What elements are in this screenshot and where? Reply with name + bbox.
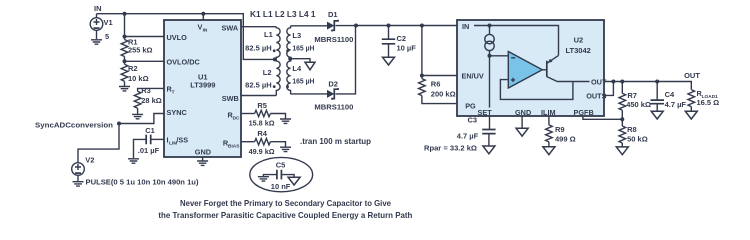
node junction SYNC xyxy=(117,122,121,126)
ground triangle (secondary tap) xyxy=(305,62,315,70)
svg-text:4.7 µF: 4.7 µF xyxy=(665,100,687,109)
node D1/D2 output junction xyxy=(354,24,358,28)
ground (U1 GND) xyxy=(197,161,208,165)
svg-text:ILIM: ILIM xyxy=(541,108,556,117)
node junction OUTS xyxy=(611,80,615,84)
svg-text:OUT: OUT xyxy=(684,71,700,80)
svg-text:L1: L1 xyxy=(264,30,273,39)
wire OVLO pin xyxy=(125,60,165,62)
svg-text:82.5 µH: 82.5 µH xyxy=(245,44,272,53)
op-amp U2 error amplifier xyxy=(508,52,542,89)
svg-text:82.5 µH: 82.5 µH xyxy=(245,81,272,90)
svg-text:C4: C4 xyxy=(665,90,675,99)
node junction OVLO xyxy=(123,59,127,63)
diode D2 xyxy=(314,80,353,112)
wire U2 internal IN rail xyxy=(474,26,559,56)
svg-text:.01 µF: .01 µF xyxy=(138,146,160,155)
node phasing dot L2 xyxy=(273,85,276,88)
svg-text:R6: R6 xyxy=(431,79,441,88)
wire minus input xyxy=(490,55,509,57)
svg-text:MBRS1100: MBRS1100 xyxy=(314,35,353,44)
svg-text:SyncADCconversion: SyncADCconversion xyxy=(35,120,113,129)
svg-text:IN: IN xyxy=(94,4,102,13)
capacitor C4 xyxy=(651,82,687,112)
svg-text:10 kΩ: 10 kΩ xyxy=(128,74,149,83)
svg-text:SWA: SWA xyxy=(222,24,239,33)
node junction R7 top xyxy=(620,80,624,84)
wire OUT from emitter xyxy=(558,81,590,83)
ground triangle (R8) xyxy=(616,147,628,155)
svg-text:R3: R3 xyxy=(141,86,151,95)
wire secondary rail to U2 IN xyxy=(356,25,457,27)
svg-text:499 Ω: 499 Ω xyxy=(555,134,576,143)
wire R1-R2 xyxy=(124,57,126,65)
wire SYNC to V2 xyxy=(78,124,119,163)
text .tran directive xyxy=(300,137,371,146)
wire PGFB pin xyxy=(583,116,622,119)
svg-text:R9: R9 xyxy=(555,125,565,134)
wire SET column xyxy=(489,51,491,108)
wire RDC pin with resistor R5 xyxy=(241,113,255,115)
resistor R5 xyxy=(249,101,286,128)
node junction UVLO xyxy=(123,35,127,39)
resistor R9 xyxy=(546,125,576,144)
ground (R3) xyxy=(132,114,143,118)
wire EN/UV pin xyxy=(422,75,457,77)
capacitor C1 xyxy=(134,126,165,158)
svg-text:.tran 100 m startup: .tran 100 m startup xyxy=(300,137,371,146)
wire SWA to L1 xyxy=(241,26,276,28)
svg-text:EN/UV: EN/UV xyxy=(462,72,484,81)
svg-text:IN: IN xyxy=(462,22,469,31)
inductor L3 xyxy=(287,26,315,59)
capacitor C3 xyxy=(457,115,496,146)
svg-text:R5: R5 xyxy=(257,101,267,110)
svg-text:Never Forget the Primary to Se: Never Forget the Primary to Secondary Ca… xyxy=(180,199,391,208)
wire UVLO pin xyxy=(125,36,165,38)
resistor R7 xyxy=(619,82,651,120)
node secondary center tap xyxy=(288,57,292,61)
svg-text:SWB: SWB xyxy=(222,94,239,103)
svg-text:200 kΩ: 200 kΩ xyxy=(431,90,456,99)
ground triangle (R9) xyxy=(543,147,555,155)
svg-text:4.7 µF: 4.7 µF xyxy=(457,132,479,141)
text caption line1 xyxy=(180,199,391,208)
svg-text:PGFB: PGFB xyxy=(574,108,594,117)
svg-text:R2: R2 xyxy=(128,64,138,73)
node primary center tap xyxy=(273,57,277,61)
capacitor C2 xyxy=(382,26,416,57)
op-amp U2 LT3042 block xyxy=(457,20,607,117)
svg-text:165 µH: 165 µH xyxy=(292,77,314,86)
node junction C2 xyxy=(387,24,391,28)
resistor R2 xyxy=(121,64,148,83)
ground (V2) xyxy=(73,182,84,186)
svg-text:GND: GND xyxy=(515,108,531,117)
svg-text:OUTS: OUTS xyxy=(586,92,606,101)
node junction rail/VIN xyxy=(201,12,205,16)
wire SYNC pin xyxy=(119,114,164,124)
svg-text:50 kΩ: 50 kΩ xyxy=(627,134,648,143)
svg-text:R7: R7 xyxy=(627,91,637,100)
wire U1 GND stub xyxy=(202,157,204,161)
wire L4 to D2 xyxy=(291,93,327,95)
svg-text:PULSE(0 5 1u 10n 10n 490n 1u): PULSE(0 5 1u 10n 10n 490n 1u) xyxy=(86,178,200,187)
svg-text:/SS: /SS xyxy=(176,136,188,145)
svg-text:255 kΩ: 255 kΩ xyxy=(128,46,153,55)
svg-text:the Transformer Parasitic Capa: the Transformer Parasitic Capacitive Cou… xyxy=(158,211,412,220)
node junction R6 xyxy=(420,24,424,28)
svg-text:BIAS: BIAS xyxy=(228,144,240,150)
node phasing dot L3 xyxy=(286,49,289,52)
current source U2 xyxy=(485,26,494,51)
ground (V1) xyxy=(91,40,102,44)
inductor L4 xyxy=(287,59,315,95)
svg-text:IN: IN xyxy=(203,27,208,33)
svg-text:LT3999: LT3999 xyxy=(190,81,215,90)
svg-text:L3: L3 xyxy=(292,31,301,40)
svg-text:Rpar = 33.2 kΩ: Rpar = 33.2 kΩ xyxy=(424,144,477,153)
svg-text:V1: V1 xyxy=(104,18,113,27)
node junction C4 xyxy=(655,80,659,84)
node IN label xyxy=(94,4,102,13)
inductor L1 xyxy=(245,27,280,59)
svg-text:450 kΩ: 450 kΩ xyxy=(626,100,651,109)
svg-text:D2: D2 xyxy=(328,80,338,89)
svg-text:C5: C5 xyxy=(276,161,286,170)
node junction EN/UV xyxy=(420,74,424,78)
resistor R3 xyxy=(134,86,162,108)
wire OUT pin rail xyxy=(604,82,691,90)
svg-text:165 µH: 165 µH xyxy=(292,44,314,53)
node phasing dot L4 xyxy=(286,85,289,88)
svg-text:PG: PG xyxy=(465,102,476,111)
ground triangle (U2 GND) xyxy=(516,128,528,136)
svg-text:GND: GND xyxy=(195,147,211,156)
svg-text:DC: DC xyxy=(233,115,240,121)
node junction rail/R1 xyxy=(123,12,127,16)
svg-text:49.9 kΩ: 49.9 kΩ xyxy=(249,147,275,156)
svg-text:R4: R4 xyxy=(257,129,267,138)
ground (C1) xyxy=(128,159,139,163)
wire R6 to PG pin xyxy=(422,96,457,104)
wire SWB to L2 xyxy=(241,95,276,97)
ground (C5 left) xyxy=(258,177,269,181)
node SyncADCconversion label xyxy=(35,120,113,129)
svg-text:T: T xyxy=(172,90,175,96)
node OUT label xyxy=(684,71,700,80)
transformer label K1 xyxy=(250,10,316,19)
wire R6 drop xyxy=(421,26,423,79)
text PULSE xyxy=(86,178,200,187)
ground triangle (RLOAD1) xyxy=(685,111,697,119)
wire R9 to gnd xyxy=(548,142,550,147)
svg-text:L4: L4 xyxy=(292,64,302,73)
svg-text:L2: L2 xyxy=(263,68,272,77)
wire IN rail to center tap xyxy=(97,14,277,60)
inductor L2 xyxy=(245,59,280,95)
resistor R1 xyxy=(121,38,152,57)
ground (R5) xyxy=(280,119,291,123)
wire R3 to ground xyxy=(137,108,139,114)
node phasing dot L1 xyxy=(273,49,276,52)
wire GND stub U2 xyxy=(521,116,523,128)
transistor Q1 (U2 pass device) xyxy=(542,55,558,81)
text Rpar xyxy=(424,144,477,153)
svg-text:C3: C3 xyxy=(468,115,478,124)
node junction minus input xyxy=(488,54,492,58)
capacitor C5 circled xyxy=(250,157,313,191)
wire L3 to D1 xyxy=(291,25,327,27)
wire OUTS pin xyxy=(604,82,613,96)
svg-text:SET: SET xyxy=(478,108,493,117)
wire SET stub below block xyxy=(489,116,491,129)
node junction current source xyxy=(488,24,492,28)
svg-text:SYNC: SYNC xyxy=(167,108,188,117)
wire R2 to ground xyxy=(124,81,126,86)
text caption line2 xyxy=(158,211,412,220)
wire RT pin xyxy=(138,88,164,91)
svg-text:10 nF: 10 nF xyxy=(271,182,291,191)
svg-text:15.8 kΩ: 15.8 kΩ xyxy=(249,119,275,128)
wire D2 up to output node xyxy=(336,26,356,94)
svg-text:D1: D1 xyxy=(328,10,338,19)
node junction PGFB/R7/R8 xyxy=(620,117,624,121)
wire ILIM stub xyxy=(548,116,550,125)
ground triangle (C3) xyxy=(483,146,495,154)
svg-text:U2: U2 xyxy=(574,36,584,45)
wire D1 to node xyxy=(336,25,357,27)
resistor R6 xyxy=(419,79,456,99)
wire VIN stub xyxy=(202,14,204,20)
ground (R2) xyxy=(119,87,130,91)
svg-text:LT3042: LT3042 xyxy=(566,46,591,55)
voltage source V2 xyxy=(72,156,95,182)
voltage source V1 xyxy=(90,14,112,42)
resistor R4 xyxy=(249,129,286,156)
svg-text:10 µF: 10 µF xyxy=(397,43,417,52)
svg-text:MBRS1100: MBRS1100 xyxy=(314,103,353,112)
svg-text:V2: V2 xyxy=(85,156,94,165)
svg-text:UVLO: UVLO xyxy=(167,33,188,42)
wire secondary tap to triangle gnd xyxy=(291,59,310,63)
op-amp U1 LT3999 block xyxy=(164,20,241,157)
diode D1 xyxy=(314,10,353,44)
ground triangle (C2) xyxy=(383,57,395,65)
resistor R8 xyxy=(619,119,648,147)
svg-text:C1: C1 xyxy=(145,126,155,135)
wire RBIAS pin xyxy=(241,141,255,143)
wire plus input feedback xyxy=(500,80,573,100)
svg-text:C2: C2 xyxy=(397,34,407,43)
ground triangle (C5 right) xyxy=(288,177,300,185)
resistor RLOAD1 xyxy=(688,89,719,111)
wire R1 drop xyxy=(124,14,126,40)
svg-text:K1 L1 L2 L3 L4 1: K1 L1 L2 L3 L4 1 xyxy=(250,10,316,19)
ground triangle (C4) xyxy=(651,111,663,119)
svg-text:R8: R8 xyxy=(627,125,637,134)
svg-text:16.5 Ω: 16.5 Ω xyxy=(697,98,720,107)
svg-text:OVLO/DC: OVLO/DC xyxy=(167,58,201,67)
svg-text:5: 5 xyxy=(105,32,109,41)
ground (R4) xyxy=(280,147,291,151)
svg-text:28 kΩ: 28 kΩ xyxy=(141,96,162,105)
